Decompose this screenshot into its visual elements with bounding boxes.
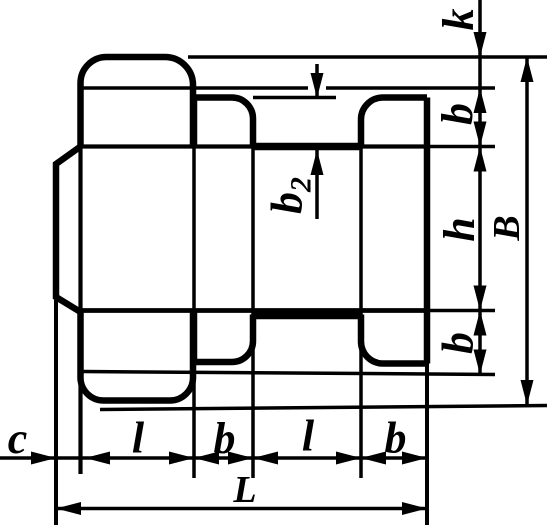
thick blank outline [56,57,427,401]
b2 dim line lower [315,150,319,219]
arrow B-down tip at y405 [521,380,534,405]
arrow b-br-down tip at y374.5 [474,350,487,375]
big bottom flap [81,310,194,401]
arrow b-br-up tip at y310.5 [474,311,487,336]
middle top tab [194,98,253,147]
arrow l-right tip at x194 [169,452,194,465]
right edge [424,98,431,364]
svg-text:k: k [434,9,483,31]
arrow b-tr-up tip at y88 [474,88,487,113]
top ext line y=57 [188,55,547,59]
bottom bridge [253,312,361,320]
body bottom fold y=310 [81,308,428,313]
middle bottom tab [194,310,253,362]
top bridge [253,143,361,151]
vertical fold x=194 [192,147,196,479]
L dim line [56,507,427,511]
crease line top y=88 (left of b2 arrow) [83,86,308,90]
svg-text:c: c [8,414,28,463]
arrow l-left tip at x81 [85,452,110,465]
bottom chain dim line y=458 [0,456,427,460]
body top fold y=146.5 [81,144,428,148]
arrow l2-right tip at x361 [336,452,361,465]
arrow b2-up tip at y150 [311,150,324,175]
right chain dim line x=480 [478,0,482,375]
svg-text:l: l [132,414,145,463]
svg-text:B: B [486,215,528,241]
bottom crease y=374.5 [83,372,495,375]
arrow b3-left tip at x361 [361,452,386,465]
arrow l2-left tip at x253 [253,452,278,465]
arrow L-right tip at x427 [402,502,427,515]
svg-text:h: h [435,217,484,241]
glue flap [56,147,81,313]
vertical ext x=427 [425,100,429,525]
svg-text:b: b [434,332,483,354]
crease line top y=88 (right of b2 arrow) [326,86,495,90]
svg-text:b: b [385,414,407,463]
big top flap [81,57,194,147]
vertical fold x=361 [359,120,363,478]
B dim line [525,57,529,405]
svg-text:b: b [214,414,236,463]
arrow b1-left tip at x194 [194,452,219,465]
arrow h-up tip at y146.5 [474,147,487,172]
svg-text:b: b [433,103,482,125]
tab-top connector y=97.5 [253,96,336,100]
arrow b3-right tip at x427 [402,452,427,465]
b2 dim line upper [315,64,319,98]
arrow h-down tip at y310.5 [474,286,487,311]
vertical fold x=253 [251,120,255,478]
arrow k-down tip at y57 [474,32,487,57]
bottom ext y=401.5 [100,406,547,410]
vertical ext x=56 [54,300,58,525]
arrow c right-tip at x56 [31,452,56,465]
svg-text:L: L [232,469,256,511]
right bottom tab [361,315,427,364]
arrow B-up tip at y57 [521,57,534,82]
right top tab [361,98,427,146]
vertical fold x=80.5 [78,147,82,475]
arrow b2-down tip at y98 [311,73,324,98]
svg-text:l: l [302,412,315,461]
arrow L-left tip at x56 [56,502,81,515]
arrow b1-right tip at x253 [228,452,253,465]
arrow b-tr-down tip at y146.5 [474,122,487,147]
